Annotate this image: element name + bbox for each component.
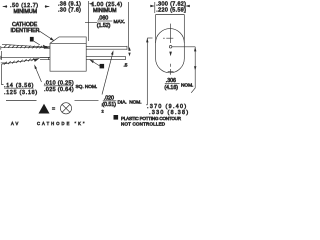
leader for lead dia dim: [102, 53, 113, 95]
svg-text:PLASTIC POTTING CONTOUR: PLASTIC POTTING CONTOUR: [121, 116, 182, 121]
svg-text:AV: AV: [11, 121, 20, 126]
svg-text:2: 2: [102, 109, 104, 114]
footnote marker + note: [114, 115, 119, 120]
front view outline (rounded bottom): [156, 15, 185, 59]
leader from label to body corner: [34, 30, 53, 45]
svg-text:(0.51): (0.51): [102, 102, 116, 108]
lens circle: [156, 29, 185, 43]
dimension .060 (1.52) MAX with right arrow: [85, 22, 97, 24]
svg-text:=: =: [52, 107, 55, 113]
svg-text:.30 (7.6): .30 (7.6): [58, 8, 81, 14]
svg-text:MINIMUM: MINIMUM: [14, 9, 37, 15]
svg-text:SQ. NOM.: SQ. NOM.: [76, 84, 98, 90]
svg-text:1: 1: [102, 102, 104, 107]
dimension 1.00 (25.4) MINIMUM: [89, 3, 94, 6]
dimension .50 (12.7) MINIMUM: [3, 5, 50, 8]
extension line for 1.00 dim (left): [88, 1, 90, 41]
reference dot: [169, 46, 172, 49]
left vertical dimension line with hook to text: [146, 38, 147, 105]
potting surface arrow + square marker: [91, 60, 100, 66]
svg-text:DIA. NOM.: DIA. NOM.: [118, 99, 142, 105]
svg-text:MINIMUM: MINIMUM: [93, 8, 116, 14]
bracket + dimension .14 (3.56) / .125 (3.18): [2, 64, 4, 85]
svg-text:CATHODE “K”: CATHODE “K”: [37, 121, 86, 126]
lead 1 left (broken/hatched): [1, 44, 50, 49]
svg-text:.025 (0.64): .025 (0.64): [44, 87, 74, 93]
dimension .300 (7.62) / .220 (5.59) over front view: [154, 2, 156, 13]
lead 2 left (broken/hatched): [1, 56, 50, 65]
svg-text:NOT CONTROLLED: NOT CONTROLLED: [121, 122, 166, 127]
svg-text:NOM.: NOM.: [181, 83, 193, 89]
right vertical dimension line: [191, 47, 195, 93]
leader for lead cross-section dim: [35, 66, 42, 82]
left edge dimension tick: [1, 51, 3, 60]
svg-text:(1.52): (1.52): [97, 23, 111, 29]
leader from dot to right: [172, 46, 195, 48]
vertical centerline with ticks and arrow: [163, 24, 173, 43]
svg-text:.5: .5: [124, 62, 128, 68]
svg-text:.125 (3.18): .125 (3.18): [4, 90, 38, 96]
extension line for 1.00 dim (right, down to lead end): [128, 2, 130, 50]
svg-text:MAX.: MAX.: [114, 19, 126, 25]
cathode identifier mark (black square): [30, 37, 34, 42]
svg-text:(4.16): (4.16): [164, 85, 178, 91]
svg-text:.220 (5.59): .220 (5.59): [156, 8, 186, 14]
svg-text:IDENTIFIER: IDENTIFIER: [11, 28, 40, 34]
side view body: [50, 37, 86, 71]
lead 2 right stub: [86, 56, 125, 60]
lead 1 right stub: [86, 46, 127, 50]
lead spacing arrows + label: [128, 47, 130, 51]
polarity legend: anode symbol = cathode symbol: [6, 100, 37, 102]
